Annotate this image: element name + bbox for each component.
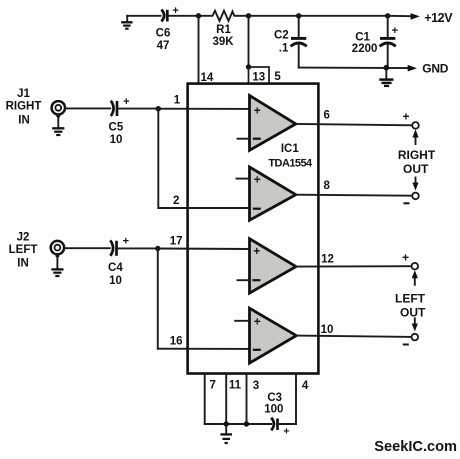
svg-text:C1: C1: [355, 32, 370, 44]
label RIGHT OUT: [398, 148, 436, 176]
node (pin 11 / ground junction): [224, 421, 229, 426]
svg-text:C2: C2: [274, 30, 289, 42]
GND arrow: [408, 65, 417, 72]
arrow up (left out +): [412, 270, 418, 285]
wire (bottom rail): [205, 423, 272, 425]
wire (GND rail): [299, 67, 408, 70]
wire (op-amp 1 output to pin 6 terminal): [296, 124, 413, 125]
ground (J2): [51, 254, 63, 276]
svg-text:+: +: [392, 25, 398, 37]
node (C1 top): [385, 13, 390, 18]
wire (op-amp 2 output to pin 8 terminal): [296, 195, 413, 196]
svg-text:10: 10: [110, 134, 123, 146]
svg-text:C3: C3: [267, 392, 282, 404]
ground (J1): [52, 115, 64, 135]
svg-text:3: 3: [253, 380, 259, 392]
stub (op-amp 3 inverting input): [238, 279, 250, 281]
arrow up (right out +): [412, 129, 418, 144]
svg-text:LEFT: LEFT: [9, 244, 38, 256]
svg-text:2: 2: [173, 195, 179, 207]
wire (C3 to pin 4): [278, 423, 296, 425]
svg-text:+: +: [123, 236, 129, 248]
svg-text:+12V: +12V: [424, 11, 453, 25]
jack J1: [52, 101, 65, 118]
wire (pin 7 down): [204, 374, 206, 425]
wire (op-amp 4 output to pin 10 terminal): [296, 336, 411, 337]
wire (J1 to C5): [65, 107, 110, 109]
svg-text:12: 12: [321, 253, 334, 265]
wire (C6 to node): [168, 15, 199, 17]
svg-text:J1: J1: [17, 88, 30, 100]
ground (top-left, C6 return): [121, 16, 132, 29]
terminal (LEFT OUT -): [412, 334, 419, 341]
svg-text:+: +: [253, 244, 260, 258]
svg-text:8: 8: [323, 180, 330, 192]
node (pin 17 / pin 16 junction): [155, 246, 160, 251]
svg-text:RIGHT: RIGHT: [398, 148, 436, 162]
svg-text:IC1: IC1: [281, 143, 300, 155]
wire (node down to pin 14): [198, 16, 200, 84]
terminal (LEFT OUT +): [412, 263, 419, 270]
svg-text:R1: R1: [216, 24, 231, 36]
terminal (RIGHT OUT -): [412, 193, 419, 200]
label J2 LEFT IN: [9, 231, 38, 269]
svg-text:39K: 39K: [212, 36, 234, 48]
label - (right out): [404, 202, 410, 204]
label J1 RIGHT IN: [6, 88, 42, 126]
svg-text:OUT: OUT: [403, 162, 429, 176]
svg-text:.1: .1: [279, 42, 289, 54]
svg-text:7: 7: [209, 380, 215, 392]
IC IC1 outline: [188, 84, 319, 374]
wire (ground to C6): [127, 15, 160, 17]
svg-text:C6: C6: [156, 27, 171, 39]
capacitor C6: [156, 5, 179, 52]
svg-text:11: 11: [229, 380, 242, 392]
ground (power supply): [379, 68, 393, 86]
svg-text:RIGHT: RIGHT: [6, 101, 42, 113]
svg-text:2200: 2200: [352, 43, 378, 55]
svg-text:IN: IN: [17, 257, 29, 269]
arrow down (left out -): [412, 318, 418, 331]
capacitor C5: [109, 96, 130, 146]
svg-text:5: 5: [274, 71, 281, 83]
svg-text:C5: C5: [109, 122, 124, 134]
node (C2 top): [296, 13, 301, 18]
svg-text:+: +: [283, 426, 289, 438]
pin 13 callout box: [249, 67, 270, 84]
wire (pin 4 down): [295, 374, 297, 425]
svg-text:GND: GND: [422, 62, 448, 76]
capacitor C4: [108, 236, 129, 287]
wire (pin 3 down): [246, 374, 248, 425]
+12V arrow: [388, 13, 420, 20]
wire (node down to pin 2): [157, 109, 159, 208]
svg-text:SeekIC.com: SeekIC.com: [374, 439, 457, 455]
svg-text:OUT: OUT: [400, 306, 426, 320]
svg-text:IN: IN: [18, 114, 30, 126]
svg-text:+: +: [402, 250, 409, 264]
label - (left out): [403, 344, 409, 346]
capacitor C2: [274, 16, 307, 68]
svg-text:16: 16: [170, 335, 183, 347]
label LEFT OUT: [395, 292, 426, 320]
svg-text:6: 6: [323, 110, 329, 122]
svg-text:1: 1: [174, 94, 181, 106]
svg-text:10: 10: [321, 324, 334, 336]
wire (node to C2): [249, 15, 299, 17]
stub (op-amp 4 non-inverting input): [235, 320, 249, 322]
terminal (RIGHT OUT +): [412, 122, 419, 129]
node (C6 / R1 / pin 14 junction): [196, 13, 201, 18]
wire (node down to pin 16): [157, 249, 159, 349]
op-amp 1 (right +): [250, 96, 296, 151]
wire (pin 16 input): [158, 348, 250, 350]
wire (pin 17 input): [158, 248, 250, 251]
wire (C5 to node): [117, 108, 158, 110]
svg-text:13: 13: [252, 72, 265, 84]
node (pin 3 junction): [244, 421, 249, 426]
wire (pin 1 input): [158, 108, 249, 110]
svg-text:10: 10: [109, 275, 122, 287]
ground (bottom rail): [220, 424, 232, 443]
op-amp 4 (left -): [250, 308, 297, 363]
wire (pin 11 down): [225, 374, 227, 425]
node (pin 1 / pin 2 junction): [156, 106, 161, 111]
svg-text:+: +: [254, 104, 261, 118]
svg-text:LEFT: LEFT: [395, 292, 426, 306]
svg-text:+: +: [254, 172, 261, 186]
wire (node down to pin 13 box): [248, 16, 250, 67]
svg-text:TDA1554: TDA1554: [268, 158, 313, 170]
wire (pin 2 input): [158, 207, 249, 209]
svg-text:+: +: [402, 109, 409, 123]
wire (C4 to node): [117, 247, 158, 249]
op-amp 2 (right -): [250, 167, 296, 220]
stub (op-amp 1 inverting input): [238, 138, 250, 140]
capacitor C3: [264, 392, 289, 438]
wire (C2 to C1 along +12V rail): [299, 15, 388, 17]
svg-text:14: 14: [201, 72, 214, 84]
node (top of pin 13 box): [246, 64, 251, 69]
wire (op-amp 3 output to pin 12 terminal): [296, 265, 412, 267]
svg-text:+: +: [254, 315, 261, 329]
svg-text:4: 4: [302, 380, 309, 392]
node (R1 / pin 13 junction): [246, 13, 251, 18]
wire (J2 to C4): [64, 247, 110, 249]
capacitor C1: [352, 16, 398, 68]
op-amp 3 (left +): [250, 239, 297, 293]
arrow down (right out -): [412, 178, 418, 191]
stub (op-amp 2 non-inverting input): [237, 178, 250, 180]
svg-text:47: 47: [157, 40, 170, 52]
svg-text:C4: C4: [108, 262, 123, 274]
svg-text:100: 100: [264, 403, 283, 415]
resistor R1: [199, 11, 249, 48]
jack J2: [51, 241, 64, 258]
svg-text:+: +: [123, 96, 129, 108]
svg-text:J2: J2: [17, 231, 30, 243]
svg-text:17: 17: [170, 235, 183, 247]
node (C1 bottom / ground junction): [384, 65, 390, 71]
